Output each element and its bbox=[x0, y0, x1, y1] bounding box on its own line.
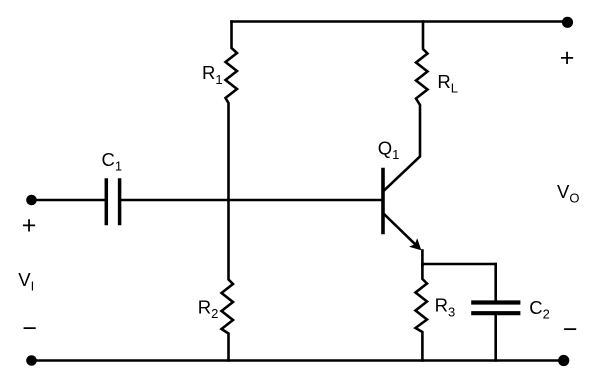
svg-text:+: + bbox=[22, 212, 37, 240]
svg-text:+: + bbox=[560, 44, 575, 72]
svg-text:−: − bbox=[22, 315, 37, 343]
svg-text:−: − bbox=[563, 316, 578, 344]
